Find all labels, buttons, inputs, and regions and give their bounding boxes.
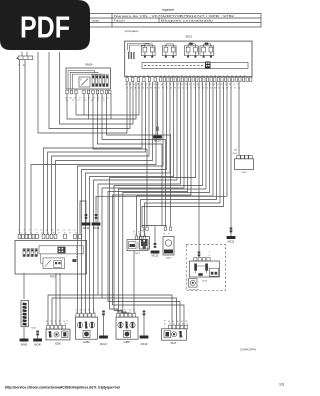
wire C4 BM34 to 5202b	[107, 94, 171, 227]
svg-text:65: 65	[178, 88, 180, 90]
svg-text:57: 57	[143, 75, 145, 77]
bridge wire 5290 group	[142, 225, 167, 227]
svg-text:82: 82	[214, 88, 216, 90]
fusebox PSF1 box	[15, 240, 87, 274]
svg-text:74: 74	[64, 232, 66, 234]
svg-text:39: 39	[214, 75, 216, 77]
svg-text:89: 89	[85, 312, 87, 314]
svg-text:21: 21	[181, 84, 183, 86]
wire rail2	[52, 298, 177, 325]
svg-text:77: 77	[151, 75, 153, 77]
ground MC33	[153, 136, 162, 143]
BSI relay grid icon	[205, 62, 211, 69]
svg-text:71: 71	[25, 232, 27, 234]
label 8513	[186, 34, 193, 38]
stub MC10	[143, 311, 146, 336]
svg-text:11: 11	[134, 312, 136, 314]
svg-text:86: 86	[133, 310, 135, 312]
svg-text:6: 6	[209, 255, 210, 257]
wire BB00 pin1 to PSF1	[19, 60, 21, 235]
note COMPO2PPN	[240, 348, 257, 352]
wire rail1	[48, 295, 172, 325]
svg-text:MC11: MC11	[83, 227, 90, 230]
svg-text:53: 53	[63, 321, 65, 323]
svg-text:W: W	[164, 321, 166, 323]
wire A4 BSI to PSF1	[56, 82, 153, 235]
svg-text:03: 03	[176, 75, 178, 77]
wire BM34 stub a	[83, 94, 85, 115]
svg-text:60: 60	[88, 310, 90, 312]
svg-text:76: 76	[40, 230, 42, 232]
PSF1 fuse bars	[23, 249, 37, 257]
svg-text:37: 37	[181, 321, 183, 323]
svg-text:52: 52	[63, 230, 65, 232]
wire loop U2	[49, 52, 130, 129]
wire A3 BSI to PSF1	[52, 82, 150, 235]
label G2B7	[124, 340, 131, 344]
BM34 internal relay	[79, 77, 90, 87]
svg-text:07: 07	[85, 100, 87, 102]
svg-text:11: 11	[74, 230, 76, 232]
wire C2 BM34 to bridge	[98, 94, 163, 226]
wire BSI to C001	[233, 82, 239, 156]
svg-text:68: 68	[60, 324, 62, 326]
PSF1 internal relay	[41, 254, 77, 269]
svg-text:14: 14	[94, 312, 96, 314]
svg-text:77: 77	[75, 310, 77, 312]
wire BSI to relay 3013	[198, 82, 201, 258]
fuse F4 in BSI	[200, 43, 214, 58]
svg-text:6250: 6250	[55, 342, 61, 346]
relay unit 6217	[162, 321, 189, 341]
svg-text:64: 64	[89, 312, 91, 314]
svg-text:88: 88	[147, 75, 149, 77]
BM34 pin row	[66, 90, 111, 94]
wire A2 BSI to PSF1	[48, 82, 146, 235]
svg-text:64: 64	[84, 310, 86, 312]
svg-text:14: 14	[125, 312, 127, 314]
header info table	[88, 14, 261, 28]
svg-text:96: 96	[47, 232, 49, 234]
wire to ground MC33	[156, 82, 158, 136]
wire S1 BSI to rail3	[108, 82, 188, 302]
splice marks MC11a	[85, 214, 88, 219]
svg-text:66: 66	[41, 232, 43, 234]
svg-text:COMPO2PPN: COMPO2PPN	[240, 348, 257, 352]
svg-text:84: 84	[70, 97, 72, 99]
svg-text:00: 00	[130, 75, 132, 77]
svg-text:00: 00	[189, 75, 191, 77]
wire to ground MC12	[230, 82, 233, 237]
wire A5 BSI to PSF1 long	[31, 82, 156, 235]
6207 pin labels	[133, 232, 146, 237]
svg-text:G2B7: G2B7	[124, 340, 131, 344]
svg-text:G2B2: G2B2	[83, 340, 90, 344]
wire BM34 stub b	[88, 94, 90, 119]
svg-text:Numéro de VIN : VF7N2RHY0B7591: Numéro de VIN : VF7N2RHY0B75912727 / OPR…	[114, 14, 234, 18]
wire E5 BSI to G2B2	[94, 82, 178, 314]
wire N2 PSF1 to MC11 splice	[80, 201, 86, 234]
BSI dashed link	[144, 65, 204, 67]
relay unit BM34 box	[66, 68, 111, 89]
svg-text:12: 12	[75, 232, 77, 234]
svg-text:80: 80	[227, 75, 229, 77]
svg-text:06: 06	[80, 312, 82, 314]
svg-text:principaux: principaux	[125, 29, 139, 33]
svg-text:26: 26	[51, 324, 53, 326]
svg-text:70: 70	[124, 310, 126, 312]
header title Imprime	[162, 8, 174, 12]
wire W6 BSI to 6207	[141, 82, 217, 237]
svg-text:19: 19	[235, 75, 237, 77]
ground MC40	[33, 339, 42, 347]
svg-text:14: 14	[178, 324, 180, 326]
wire S2 BSI to rail4	[113, 82, 192, 306]
ground MC10	[140, 336, 149, 346]
svg-text:17: 17	[29, 230, 31, 232]
BM34 pin labels	[65, 97, 108, 102]
BM34 internal bus	[68, 71, 102, 90]
svg-text:78: 78	[50, 321, 52, 323]
stub MC40	[36, 331, 39, 339]
svg-text:36: 36	[146, 88, 148, 90]
svg-text:93: 93	[139, 75, 141, 77]
wire T1 BSI to rail1	[98, 82, 181, 296]
lamp cluster G2B7	[116, 310, 139, 340]
PDF badge	[0, 0, 90, 50]
ground M000	[20, 339, 29, 347]
svg-text:37: 37	[182, 324, 184, 326]
svg-text:MC10: MC10	[141, 343, 148, 346]
fuse F1 in BSI	[141, 44, 155, 58]
ground MC15	[151, 251, 160, 258]
svg-text:87: 87	[55, 321, 57, 323]
PSF1 internal rail	[39, 246, 83, 260]
switch unit 6207	[127, 236, 148, 251]
connector BB00 strip	[16, 52, 33, 68]
BM34 fuse bank	[92, 75, 108, 87]
svg-text:25: 25	[121, 312, 123, 314]
wire 6207 to G2B7 p5	[134, 251, 138, 314]
svg-text:29: 29	[52, 230, 54, 232]
svg-text:20: 20	[186, 324, 188, 326]
svg-text:97: 97	[193, 75, 195, 77]
wire W2 BSI to G2B7	[114, 82, 203, 314]
wire loop U1	[38, 52, 127, 133]
label B011	[32, 328, 38, 330]
wire E4 BSI to G2B2	[90, 82, 174, 314]
svg-text:49: 49	[69, 232, 71, 234]
svg-text:37: 37	[164, 75, 166, 77]
svg-text:29: 29	[56, 324, 58, 326]
wire W5 BSI to 6207	[137, 82, 214, 237]
svg-text:8: 8	[67, 324, 68, 326]
wire rail4	[113, 305, 185, 325]
svg-text:1/3: 1/3	[279, 383, 284, 387]
svg-text:62: 62	[197, 75, 199, 77]
svg-text:9: 9	[209, 252, 210, 254]
wire PSF1 to B011	[23, 273, 25, 299]
svg-text:C001: C001	[241, 172, 247, 174]
svg-text:8513: 8513	[186, 34, 193, 38]
svg-text:MC12: MC12	[228, 241, 235, 244]
svg-text:42: 42	[173, 324, 175, 326]
inline connector B011	[21, 301, 29, 327]
wire E2 BSI to G2B2	[82, 82, 167, 314]
svg-text:85: 85	[218, 75, 220, 77]
svg-text:6217: 6217	[171, 341, 177, 345]
svg-text:34: 34	[120, 310, 122, 312]
svg-text:84: 84	[91, 100, 93, 102]
label 6217	[171, 341, 177, 345]
svg-text:70: 70	[185, 84, 187, 86]
svg-text:BM34: BM34	[86, 62, 93, 66]
svg-text:01: 01	[231, 75, 233, 77]
svg-text:22: 22	[46, 230, 48, 232]
wire T2 BSI to rail2	[102, 82, 184, 299]
svg-text:47: 47	[103, 100, 105, 102]
svg-text:39: 39	[168, 75, 170, 77]
wire W4 BSI to G2B7	[123, 82, 210, 314]
svg-text:15: 15	[59, 321, 61, 323]
BSI connector pin row	[126, 78, 252, 82]
label 6207	[135, 253, 141, 255]
svg-text:B011: B011	[32, 328, 38, 330]
svg-text:96: 96	[53, 232, 55, 234]
svg-text:5290: 5290	[166, 258, 172, 260]
junction box C001	[235, 155, 254, 169]
svg-text:3013: 3013	[202, 280, 208, 282]
lamp cluster G2B2	[75, 310, 98, 340]
svg-text:76: 76	[134, 75, 136, 77]
wire MC15 drop	[154, 226, 157, 248]
BSI internal connector bars	[128, 52, 135, 59]
svg-text:30: 30	[72, 100, 74, 102]
wire C3 BM34 to 5202a	[102, 94, 166, 227]
svg-text:66: 66	[177, 321, 179, 323]
splice marks MC11b	[95, 214, 98, 219]
fuse F3 in BSI	[185, 43, 199, 58]
svg-text:Imprimé: Imprimé	[162, 8, 174, 12]
svg-text:78: 78	[172, 75, 174, 77]
label 6250	[55, 342, 61, 346]
svg-text:88: 88	[150, 88, 152, 90]
wire PSF1 to 6250 b	[59, 273, 61, 325]
svg-text:79: 79	[168, 234, 170, 236]
svg-text:65: 65	[185, 75, 187, 77]
svg-text:98: 98	[79, 310, 81, 312]
svg-text:90: 90	[126, 75, 128, 77]
svg-text:15: 15	[30, 232, 32, 234]
wire E3 BSI to G2B2	[86, 82, 171, 314]
svg-text:57: 57	[169, 324, 171, 326]
wire E1 BSI to G2B2	[78, 82, 164, 314]
svg-text:curas: curas	[92, 19, 99, 23]
relay unit 3013	[189, 257, 219, 277]
svg-text:16: 16	[172, 321, 174, 323]
svg-text:54: 54	[160, 75, 162, 77]
wire A1 BSI to PSF1	[44, 82, 143, 235]
svg-text:64: 64	[210, 88, 212, 90]
svg-text:73: 73	[206, 75, 208, 77]
svg-text:79: 79	[181, 75, 183, 77]
footer url	[5, 386, 120, 390]
svg-text:59: 59	[193, 84, 195, 86]
ground MC12	[227, 236, 236, 244]
BSI unit 8513 box	[125, 41, 252, 77]
svg-text:B410: B410	[233, 153, 237, 155]
svg-text:45: 45	[93, 310, 95, 312]
svg-text:6207: 6207	[135, 253, 141, 255]
label PSF1	[50, 274, 57, 278]
stub MC21	[102, 311, 105, 336]
svg-text:99: 99	[221, 84, 223, 86]
svg-text:38: 38	[244, 75, 246, 77]
svg-text:08: 08	[202, 75, 204, 77]
wire W1 BSI to G2B7	[110, 82, 196, 314]
svg-text:45: 45	[168, 321, 170, 323]
page number 1/3	[279, 383, 284, 387]
wire B011 to ground	[23, 327, 25, 339]
svg-text:85: 85	[239, 75, 241, 77]
svg-text:MC40: MC40	[34, 344, 41, 347]
pin row above PSF1	[18, 230, 81, 239]
svg-text:27: 27	[158, 88, 160, 90]
svg-text:57: 57	[58, 232, 60, 234]
wire PSF1 to 6250 a	[55, 273, 57, 325]
svg-text:05: 05	[139, 234, 141, 236]
svg-text:PDF: PDF	[20, 10, 70, 45]
wire C1 BM34 to 5290	[93, 94, 147, 227]
ground MC11b	[92, 223, 101, 230]
wire W3 BSI to G2B7	[119, 82, 207, 314]
svg-text:52: 52	[116, 310, 118, 312]
motor unit 5290	[139, 227, 150, 249]
timer icon	[189, 279, 199, 290]
svg-text:Bloques centralizado: Bloques centralizado	[161, 19, 213, 23]
svg-text:55: 55	[210, 75, 212, 77]
label 3013	[202, 280, 208, 282]
wire N1 BSI to MC11 splice	[96, 82, 227, 223]
svg-text:89: 89	[163, 234, 165, 236]
svg-text:Función: Función	[114, 19, 125, 23]
label BM34	[86, 62, 93, 66]
BSI internal rail strip	[142, 63, 248, 69]
dashed enclosure	[186, 245, 225, 291]
wire BB00 pin2 to PSF1	[24, 60, 26, 235]
wire loop V1 BM34	[67, 82, 136, 120]
label C001	[241, 172, 247, 174]
ground MC21	[99, 336, 108, 346]
svg-text:MC15: MC15	[152, 255, 159, 258]
BSI pin numbers	[126, 75, 246, 77]
svg-text:55: 55	[223, 75, 225, 77]
svg-text:10: 10	[68, 230, 70, 232]
svg-text:71: 71	[233, 84, 235, 86]
svg-text:MC11: MC11	[93, 227, 100, 230]
svg-text:77: 77	[18, 230, 20, 232]
wire X1 BSI to 5290	[142, 82, 224, 227]
svg-text:75: 75	[117, 312, 119, 314]
wire C5 BM34 stub	[110, 94, 112, 119]
fuse F2 in BSI	[162, 44, 176, 58]
svg-text:69: 69	[133, 232, 135, 234]
svg-text:36: 36	[57, 230, 59, 232]
lamp cluster 6250	[46, 321, 70, 340]
svg-text:70: 70	[47, 324, 49, 326]
svg-text:15: 15	[134, 234, 136, 236]
svg-text:13: 13	[78, 100, 80, 102]
BSI internal bus wires	[128, 43, 150, 52]
svg-text:41: 41	[153, 84, 155, 86]
svg-text:MC33: MC33	[154, 140, 161, 143]
wire W7 BSI to 6207	[145, 82, 221, 237]
svg-text:92: 92	[234, 88, 236, 90]
svg-text:79: 79	[79, 97, 81, 99]
svg-text:24: 24	[46, 321, 48, 323]
svg-text:54: 54	[155, 75, 157, 77]
svg-text:28: 28	[185, 321, 187, 323]
svg-text:88: 88	[76, 312, 78, 314]
svg-text:40: 40	[144, 234, 146, 236]
svg-text:MC21: MC21	[100, 343, 107, 346]
wire loop U3	[60, 52, 134, 124]
svg-text:94: 94	[129, 310, 131, 312]
svg-text:76: 76	[174, 88, 176, 90]
pump unit 5202	[163, 227, 174, 255]
svg-text:27: 27	[130, 312, 132, 314]
label principaux	[125, 29, 139, 33]
label 5202	[166, 258, 172, 260]
svg-text:79: 79	[217, 84, 219, 86]
svg-text:http://service.citroen.com/sch: http://service.citroen.com/schemaAC/Ddcl…	[5, 386, 120, 390]
label G2B2	[83, 340, 90, 344]
svg-text:24: 24	[24, 230, 26, 232]
BSI pin wire labels	[125, 84, 240, 90]
relay side labels	[209, 252, 210, 258]
svg-text:78: 78	[36, 232, 38, 234]
svg-text:M000: M000	[21, 344, 28, 347]
svg-text:07: 07	[35, 230, 37, 232]
wire loop V2 BM34	[76, 82, 139, 116]
ground MC11a	[82, 223, 91, 230]
wire rail3	[108, 302, 180, 326]
svg-text:14: 14	[19, 232, 21, 234]
